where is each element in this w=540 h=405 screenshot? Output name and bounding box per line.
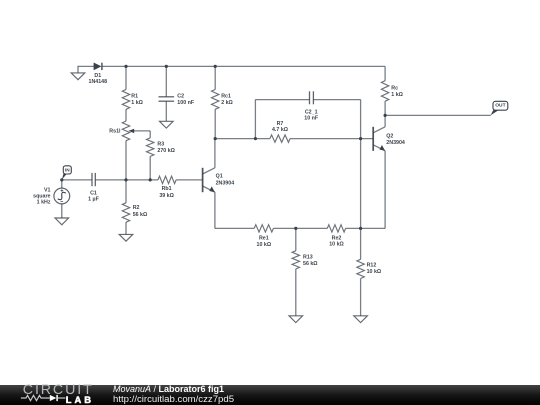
svg-text:R13: R13: [303, 254, 313, 260]
svg-text:IN: IN: [65, 168, 70, 173]
svg-text:R2: R2: [133, 205, 140, 211]
svg-text:C2_1: C2_1: [305, 110, 318, 116]
svg-text:OUT: OUT: [495, 102, 505, 108]
svg-text:10 kΩ: 10 kΩ: [329, 241, 344, 247]
svg-text:D1: D1: [94, 73, 101, 79]
svg-text:Q2: Q2: [386, 134, 393, 140]
svg-text:10 nF: 10 nF: [304, 116, 319, 122]
svg-text:10 kΩ: 10 kΩ: [257, 242, 272, 248]
svg-text:10 kΩ: 10 kΩ: [367, 269, 382, 275]
svg-text:Re2: Re2: [332, 235, 342, 241]
svg-text:2N3904: 2N3904: [216, 181, 235, 187]
svg-text:4.7 kΩ: 4.7 kΩ: [272, 127, 289, 133]
svg-text:Q1: Q1: [216, 173, 223, 179]
svg-text:R7: R7: [277, 121, 284, 127]
svg-text:1 kΩ: 1 kΩ: [391, 92, 403, 98]
svg-text:Rc: Rc: [391, 86, 398, 92]
svg-text:Re1: Re1: [259, 236, 269, 242]
svg-text:1 kΩ: 1 kΩ: [131, 100, 143, 106]
svg-text:100 nF: 100 nF: [177, 100, 195, 106]
svg-text:1 kHz: 1 kHz: [37, 199, 51, 205]
svg-text:Rs1l: Rs1l: [109, 128, 121, 134]
svg-text:2N3904: 2N3904: [386, 140, 405, 146]
svg-text:56 kΩ: 56 kΩ: [303, 261, 318, 267]
svg-text:2 kΩ: 2 kΩ: [221, 100, 233, 106]
svg-text:1N4148: 1N4148: [89, 79, 108, 85]
svg-text:270 kΩ: 270 kΩ: [157, 148, 175, 154]
svg-text:R12: R12: [367, 262, 377, 268]
svg-text:56 kΩ: 56 kΩ: [133, 212, 148, 218]
svg-text:C2: C2: [177, 93, 184, 99]
svg-text:Rc1: Rc1: [221, 93, 231, 99]
svg-text:Rb1: Rb1: [162, 186, 172, 192]
svg-text:R1: R1: [131, 93, 138, 99]
svg-text:1 µF: 1 µF: [88, 197, 99, 203]
svg-text:R3: R3: [157, 141, 164, 147]
svg-text:39 kΩ: 39 kΩ: [159, 193, 174, 199]
